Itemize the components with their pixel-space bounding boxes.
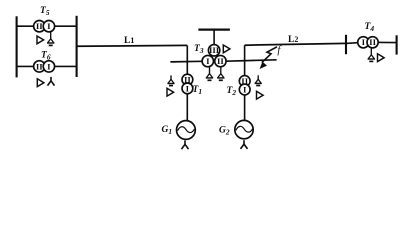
svg-text:I: I [206, 56, 210, 66]
generator G1 [177, 121, 196, 140]
grounded-star symbol under T3 winding II [217, 67, 224, 81]
transformer T4 [358, 37, 379, 48]
wire vertical from L1 corner to G1 [186, 45, 188, 120]
grounded-star symbol under T5 [47, 32, 54, 46]
svg-text:I: I [243, 84, 247, 94]
delta symbol right of T3 top circle [223, 45, 230, 53]
svg-text:III: III [209, 45, 220, 55]
svg-text:T4: T4 [365, 22, 375, 33]
svg-text:II: II [36, 61, 43, 71]
wire line L1 [77, 44, 188, 47]
delta symbol under T4 [378, 54, 385, 62]
grounded-star symbol left of T1 [167, 75, 174, 85]
wire bottom branch (T6 branch) [17, 65, 77, 67]
svg-text:II: II [369, 37, 376, 47]
svg-text:L2: L2 [288, 35, 298, 45]
svg-text:T1: T1 [193, 85, 203, 96]
transformer T3 (three-winding) [202, 45, 226, 67]
fault lightning bolt [260, 47, 277, 69]
svg-text:I: I [47, 21, 51, 31]
grounded-star symbol under T3 winding I [206, 67, 213, 81]
grounded-star symbol right of T2 [255, 75, 262, 85]
svg-text:II: II [217, 56, 224, 66]
svg-text:G1: G1 [162, 125, 173, 136]
svg-text:I: I [362, 37, 366, 47]
wire middle bus right stub [226, 60, 276, 61]
svg-text:T2: T2 [227, 86, 237, 97]
bus bar left of T4 [345, 35, 347, 54]
star symbol under G1 [182, 140, 189, 149]
svg-text:G2: G2 [219, 126, 230, 137]
star symbol under G2 [241, 140, 248, 149]
generator G2 [235, 120, 253, 138]
wire vertical from L2 corner to G2 [244, 45, 246, 120]
wire from T4 to right bus [373, 41, 397, 43]
delta symbol under T5 [37, 36, 44, 44]
wire from top bus to T3 [213, 30, 215, 45]
transformer T2 [239, 76, 250, 95]
star symbol under T6 [48, 77, 55, 86]
top system bus bar above T3 [198, 29, 230, 31]
svg-text:T3: T3 [194, 44, 204, 55]
transformer T1 [182, 74, 193, 94]
bus bar right of T5/T6 block [76, 16, 78, 77]
grounded-star symbol under T4 [368, 48, 375, 62]
wire top branch (T5 branch) [17, 25, 77, 27]
svg-text:T6: T6 [41, 51, 51, 62]
delta symbol under T6 [37, 79, 44, 87]
svg-text:I: I [47, 61, 51, 71]
bus bar right of T4 [396, 35, 398, 54]
wire line L2 [245, 43, 346, 45]
transformer T5 [34, 21, 55, 32]
svg-text:T5: T5 [40, 6, 50, 17]
delta symbol right of T2 [257, 91, 264, 99]
bus bar left of T5/T6 block [16, 16, 18, 77]
svg-text:L1: L1 [124, 36, 134, 46]
svg-text:II: II [36, 21, 43, 31]
transformer T6 [34, 61, 55, 72]
delta symbol left of T1 [167, 88, 174, 96]
wire from bus to T4 [346, 42, 363, 43]
wire middle bus left stub [170, 60, 202, 63]
svg-text:I: I [186, 83, 190, 93]
